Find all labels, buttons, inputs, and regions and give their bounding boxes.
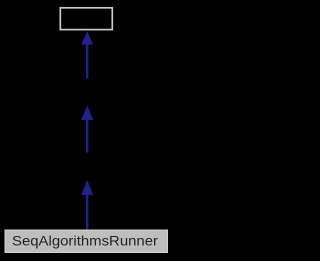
svg-text:SeqAlgorithmsRunner: SeqAlgorithmsRunner bbox=[12, 233, 158, 249]
